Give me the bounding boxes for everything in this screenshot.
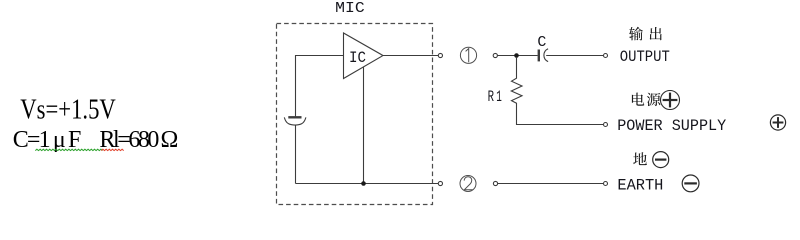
svg-text:Vs=+1.5V: Vs=+1.5V	[20, 94, 116, 125]
svg-text:EARTH: EARTH	[617, 176, 663, 194]
svg-text:MIC: MIC	[335, 0, 365, 17]
svg-text:POWER SUPPLY: POWER SUPPLY	[617, 117, 726, 135]
svg-text:OUTPUT: OUTPUT	[620, 48, 670, 66]
svg-text:C: C	[537, 34, 546, 51]
svg-text:R: R	[488, 88, 494, 106]
svg-text:IC: IC	[349, 49, 366, 67]
svg-text:1: 1	[496, 88, 502, 106]
svg-text:Rl=680 Ω: Rl=680 Ω	[99, 127, 178, 153]
